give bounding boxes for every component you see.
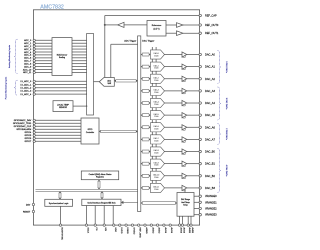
bus DAC7 data [141, 138, 151, 141]
svg-text:DAC_A2: DAC_A2 [205, 77, 215, 81]
svg-text:ADC_2: ADC_2 [24, 45, 32, 48]
svg-text:Synchronization Logic: Synchronization Logic [49, 202, 69, 205]
block multi-sensor input scaling [52, 38, 72, 76]
block serial interface [82, 199, 121, 205]
wire REF_CAP net (top) [105, 16, 200, 25]
pin GPIO3 [33, 128, 35, 130]
pin VRANGE2 [199, 207, 217, 210]
wire junction to buffer A1 [105, 24, 118, 26]
pin AVEE (bottom x=191.0) [190, 224, 194, 234]
wire GPIO6 [35, 137, 81, 139]
wire scaled ADC_10 to mux [72, 69, 87, 71]
op-amp ref buffer A1 (points left) [118, 22, 124, 27]
bus registers to internal bus [98, 180, 101, 190]
svg-text:BUSY/SYNC: BUSY/SYNC [61, 227, 63, 240]
pin DAV (left) [26, 203, 35, 206]
wire DAC6 to buffer [165, 126, 183, 128]
bus sync to internal bus [59, 191, 62, 199]
annotation Power Monitoring Inputs [5, 77, 8, 99]
svg-text:SDO: SDO [114, 227, 116, 232]
block DAC10 12-bit [151, 171, 165, 180]
svg-text:ADC_0: ADC_0 [24, 39, 32, 42]
svg-text:REF_OUT0: REF_OUT0 [205, 23, 219, 27]
pin ADC_9 [33, 65, 35, 67]
annotation brace ADC inputs [14, 39, 17, 73]
label GPIO6 [25, 138, 32, 140]
svg-text:12-Bit: 12-Bit [154, 79, 159, 82]
svg-text:DAC_A7: DAC_A7 [205, 137, 215, 141]
pin VRANGE3 [199, 214, 217, 217]
bus horizontal internal [36, 189, 138, 191]
svg-text:ADC_10: ADC_10 [23, 68, 32, 71]
svg-text:ADC_1: ADC_1 [24, 42, 32, 45]
pin ADC_6 [33, 57, 35, 59]
svg-text:GPIO3/ALARM: GPIO3/ALARM [16, 128, 31, 131]
wire ADC_8 input [35, 63, 52, 65]
svg-text:IOVDD: IOVDD [132, 227, 134, 234]
pin ADC_0 [33, 39, 35, 41]
svg-text:12-Bit: 12-Bit [154, 176, 159, 179]
wire buffer to pin DAC11 [187, 187, 200, 189]
svg-text:Reference: Reference [152, 24, 162, 27]
node junction ref [104, 24, 106, 26]
pin DAC_A5 [199, 113, 215, 117]
wire buffer to pin DAC8 [187, 151, 200, 153]
wire scaled ADC_2 to mux [72, 45, 87, 47]
svg-text:LV_ADC_3: LV_ADC_3 [20, 90, 32, 93]
bus DAC5 data [141, 114, 151, 117]
block DAC4 12-bit [151, 98, 165, 107]
bus DAC6 data [141, 126, 151, 129]
bus DAC8 data [141, 150, 151, 153]
pin ADC_11 [33, 71, 35, 73]
label LV_ADC_3 [20, 90, 32, 93]
wire ADC_0 input [35, 39, 52, 41]
annotation brace DACs group2 [218, 87, 221, 120]
pin DAC_A4 [199, 101, 215, 105]
label GPIO1 [13, 122, 32, 125]
pin AVSS (bottom x=170.2) [169, 224, 173, 234]
svg-text:SENSOR: SENSOR [59, 107, 68, 109]
op-amp DAC3 output buffer [182, 88, 187, 94]
svg-text:12-Bit: 12-Bit [154, 152, 159, 155]
annotation group1 PA gate DACs [225, 61, 228, 73]
wire ADC_3 input [35, 48, 52, 50]
svg-text:ADC_6: ADC_6 [24, 57, 32, 60]
pin DAC_B2 [199, 174, 215, 178]
pin AVEE (bottom x=188.2) [187, 224, 191, 234]
svg-text:SCLK: SCLK [86, 227, 88, 233]
wire scaled ADC_0 to mux [72, 39, 87, 41]
wire CS to pin [94, 206, 96, 226]
wire reference buffer to ADC [104, 25, 106, 78]
pin LV_ADC_4 [33, 93, 35, 95]
svg-text:AVEE: AVEE [188, 227, 191, 233]
pin VRANGE1 [199, 201, 217, 204]
label ADC_8 [24, 62, 32, 65]
wire DAC9 to buffer [165, 163, 183, 165]
wire SDO to pin [112, 206, 114, 226]
wire DAC reference rails [152, 47, 156, 189]
label ADC_9 [24, 65, 32, 68]
annotation Analog Monitoring Inputs [8, 45, 11, 68]
label GPIO2 [14, 125, 32, 128]
node LV mux junction [86, 93, 87, 94]
svg-text:12-Bit: 12-Bit [154, 67, 159, 70]
svg-text:LOCAL TEMP: LOCAL TEMP [57, 103, 70, 106]
svg-text:CS: CS [95, 227, 97, 231]
svg-text:LV_ADC_2: LV_ADC_2 [20, 87, 32, 90]
wire GPIO7 [35, 140, 81, 142]
wire range box supply 1 [181, 216, 183, 225]
wire scaled ADC_8 to mux [72, 63, 87, 65]
svg-text:ADC Trigger: ADC Trigger [124, 40, 136, 43]
label LV_ADC_1 [20, 83, 32, 86]
pin GPIO5 [33, 134, 35, 136]
label ADC_1 [24, 42, 32, 45]
annotation brace LV inputs [14, 80, 17, 95]
label ADC_7 [24, 60, 32, 63]
title AMC7832 [40, 5, 64, 11]
block Reference 2.5V [147, 21, 166, 37]
wire data bus to serial interface [121, 201, 138, 204]
block ADC SAR [99, 78, 114, 87]
wire GPIO1 [35, 122, 81, 124]
pin RESET (left) [23, 210, 35, 213]
op-amp DAC4 output buffer [182, 100, 187, 106]
svg-text:DAC Trigger: DAC Trigger [142, 40, 154, 43]
pin AVDD (bottom x=151.3) [150, 224, 154, 234]
label DAC Trigger [142, 40, 154, 43]
pin AVDD (bottom x=157.6) [156, 224, 160, 234]
block DAC7 12-bit [151, 135, 165, 144]
pin GPIO6 [33, 137, 35, 139]
pin ADC_10 [33, 68, 35, 70]
bus ADC to data bus [114, 79, 137, 82]
svg-text:VRANGE2: VRANGE2 [205, 208, 217, 211]
annotation group2 PA gate DACs [225, 98, 228, 110]
svg-text:Power Monitoring Inputs: Power Monitoring Inputs [5, 77, 8, 99]
wire DAC0 to buffer [165, 54, 183, 56]
svg-text:ADC_3: ADC_3 [24, 48, 32, 51]
svg-text:VRANGE3: VRANGE3 [205, 214, 217, 217]
block DAC9 12-bit [151, 159, 165, 168]
wire DAC2 to buffer [165, 78, 183, 80]
pin REF_GND (bottom x=138.7) [138, 224, 141, 238]
pin REF_OUT1 [199, 31, 219, 35]
bus internal data/trigger bus (vertical) [138, 36, 141, 212]
svg-text:ADC_4: ADC_4 [24, 51, 32, 54]
pin AGND (bottom x=145.0) [144, 224, 148, 234]
wire buffer to REF_OUT0 pin [183, 24, 200, 26]
label GPIO5 [25, 135, 32, 137]
wire DAC11 to buffer [165, 187, 183, 189]
pin REF_CAP [199, 14, 217, 18]
bus DAC9 data [141, 162, 151, 165]
label LV_ADC_0 [20, 80, 32, 83]
wire GPIO0 [35, 119, 81, 121]
wire ADC_2 input [35, 45, 52, 47]
op-amp DAC5 output buffer [182, 113, 187, 119]
svg-text:Controller: Controller [86, 131, 95, 134]
wire ADC_10 input [35, 69, 52, 71]
label ADC_3 [24, 48, 32, 51]
svg-text:12-Bit: 12-Bit [154, 91, 159, 94]
op-amp DAC10 output buffer [182, 173, 187, 179]
bus serial to internal bus [101, 191, 104, 199]
wire ADC_6 input [35, 57, 52, 59]
svg-text:Analog Monitoring Inputs: Analog Monitoring Inputs [8, 45, 11, 68]
svg-text:ADC_9: ADC_9 [24, 65, 32, 68]
pin ADC_4 [33, 51, 35, 53]
svg-text:SDI: SDI [104, 227, 106, 231]
wire buffer to pin DAC10 [187, 175, 200, 177]
pin DAC_B3 [199, 186, 215, 190]
wire ADC_5 input [35, 54, 52, 56]
wire temp sensor to mux [73, 105, 87, 107]
svg-text:AGND: AGND [145, 227, 148, 234]
svg-text:AVSS: AVSS [182, 227, 185, 233]
pin ADC_3 [33, 48, 35, 50]
svg-text:12-Bit: 12-Bit [154, 115, 159, 118]
svg-text:DAC_B3: DAC_B3 [205, 186, 215, 190]
svg-text:12-Bit: 12-Bit [154, 103, 159, 106]
pin DAC_A2 [199, 77, 215, 81]
svg-text:DAC_B1: DAC_B1 [205, 162, 215, 166]
pin DAC_A6 [199, 125, 215, 129]
svg-text:DAC_B2: DAC_B2 [205, 174, 215, 178]
annotation brace DACs group3 [218, 124, 221, 145]
label ADC_6 [24, 57, 32, 60]
svg-text:DAC_A4: DAC_A4 [205, 101, 215, 105]
wire DAC8 to buffer [165, 151, 183, 153]
op-amp DAC7 output buffer [182, 137, 187, 143]
pin GPIO4 [33, 131, 35, 133]
wire scaled ADC_5 to mux [72, 54, 87, 56]
pin SDI (bottom x=104.2) [103, 224, 106, 231]
label ADC_2 [24, 45, 32, 48]
wire DAC10 to buffer [165, 175, 183, 177]
svg-text:12-Bit: 12-Bit [154, 55, 159, 58]
pin ADC_5 [33, 54, 35, 56]
wire mux to ADC SAR [94, 81, 100, 83]
wire GPIO2 [35, 125, 81, 127]
svg-text:DAC Range: DAC Range [181, 198, 190, 201]
svg-text:REF_GND: REF_GND [139, 227, 141, 238]
svg-text:GPIO6: GPIO6 [25, 138, 32, 140]
wire DAC7 to buffer [165, 138, 183, 140]
block DAC11 12-bit [151, 183, 165, 192]
pin DGND (bottom x=126.1) [125, 224, 128, 234]
op-amp DAC6 output buffer [182, 125, 187, 130]
svg-text:REF_OUT1: REF_OUT1 [205, 31, 219, 35]
label ADC_0 [24, 39, 32, 42]
svg-text:GPIO4: GPIO4 [25, 132, 32, 134]
wire buffer to pin DAC2 [187, 78, 200, 80]
IC body outline AMC7832 [33, 10, 199, 225]
wire LV_ADC_3 to mux [35, 90, 87, 92]
wire scaled ADC_11 to mux [72, 71, 87, 73]
pin DAC_A1 [199, 65, 215, 69]
label ADC_4 [24, 51, 32, 54]
bus DAC4 data [141, 102, 151, 105]
svg-text:2 PA3 DACs: 2 PA3 DACs [225, 128, 228, 140]
block synchronization logic [45, 199, 73, 206]
wire buffer to pin DAC9 [187, 163, 200, 165]
pin DAC_B1 [199, 162, 215, 166]
svg-text:GPIO7: GPIO7 [25, 141, 32, 143]
wire GPIO3 [35, 128, 81, 130]
svg-text:12-Bit: 12-Bit [154, 127, 159, 130]
svg-text:DAC_A5: DAC_A5 [205, 113, 215, 117]
pin GPIO0 [33, 119, 35, 121]
bus DAC10 data [141, 174, 151, 177]
svg-text:AVSS: AVSS [180, 227, 183, 233]
wire buffer to pin DAC4 [187, 102, 200, 104]
wire ref out1 [166, 32, 177, 34]
label GPIO0 [14, 119, 32, 122]
bus DAC0 data [141, 53, 151, 56]
pin GPIO7 [33, 140, 35, 142]
block GPIO controller [81, 118, 99, 144]
wire VRANGE3 [194, 214, 200, 216]
svg-text:LV_ADC_1: LV_ADC_1 [20, 83, 32, 86]
bus DAC11 data [141, 186, 151, 189]
block DAC5 12-bit [151, 111, 165, 120]
annotation group3 DACs [225, 128, 228, 140]
svg-text:GPIO5: GPIO5 [25, 135, 32, 137]
wire DAC5 to buffer [165, 114, 183, 116]
pin CS (bottom x=95.2) [94, 224, 97, 231]
svg-text:And Clamp: And Clamp [181, 201, 189, 204]
svg-text:GPIO0/ADC_DAV: GPIO0/ADC_DAV [14, 119, 32, 122]
op-amp DAC9 output buffer [182, 161, 187, 167]
pin LV_ADC_0 [33, 80, 35, 82]
svg-text:Setup: Setup [183, 203, 187, 206]
wire SCLK to pin [85, 206, 87, 226]
svg-text:VRANGE0: VRANGE0 [205, 195, 217, 198]
svg-text:3 PA2 DACs: 3 PA2 DACs [225, 98, 228, 110]
block DAC6 12-bit [151, 123, 165, 132]
wire sync to pin [60, 207, 62, 226]
pin AVSS (bottom x=163.9) [163, 224, 167, 234]
svg-text:3 PA1 DACs: 3 PA1 DACs [225, 61, 228, 73]
op-amp buffer REF_OUT1 [177, 31, 184, 36]
pin ADC_8 [33, 63, 35, 65]
pin SCLK (bottom x=86.4) [85, 224, 88, 234]
pin GPIO1 [33, 122, 35, 124]
label ADC_5 [24, 54, 32, 57]
pin ADC_7 [33, 60, 35, 62]
wire buffer to REF_OUT1 pin [183, 32, 200, 34]
wire buffer to pin DAC5 [187, 114, 200, 116]
pin IOVDD (bottom x=132.4) [131, 224, 134, 235]
svg-text:AVEE: AVEE [191, 227, 194, 233]
svg-text:RESET: RESET [23, 211, 31, 213]
bus DAC1 data [141, 65, 151, 68]
block DAC8 12-bit [151, 147, 165, 156]
svg-text:DAV: DAV [26, 203, 31, 206]
wire SDI to pin [103, 206, 105, 226]
wire buffer to pin DAC1 [187, 66, 200, 68]
svg-text:AVSS: AVSS [164, 227, 167, 233]
wire buffer to pin DAC3 [187, 90, 200, 92]
wire ADC_9 input [35, 66, 52, 68]
op-amp DAC8 output buffer [182, 149, 187, 155]
wire reference box to buffer A1 [124, 24, 147, 26]
wire LV_ADC_4 to mux [35, 93, 87, 95]
op-amp buffer REF_OUT0 [177, 23, 184, 28]
annotation group4 DACs [225, 165, 228, 177]
block local temp sensor [53, 101, 73, 112]
wire DAC3 to buffer [165, 90, 183, 92]
label ADC_11 [23, 71, 32, 74]
wire VRANGE0 [194, 195, 200, 197]
wire ADC trigger [111, 44, 138, 77]
wire DAC1 to buffer [165, 66, 183, 68]
svg-text:12-Bit: 12-Bit [154, 139, 159, 142]
op-amp DAC0 output buffer [182, 52, 187, 58]
pin LV_ADC_2 [33, 87, 35, 89]
svg-text:12-Bit: 12-Bit [154, 188, 159, 191]
wire scaled ADC_1 to mux [72, 42, 87, 44]
annotation brace DACs group4 [218, 149, 221, 193]
wire ADC_11 input [35, 71, 52, 73]
svg-text:AVDD: AVDD [151, 227, 154, 233]
wire DAC4 to buffer [165, 102, 183, 104]
wire scaled ADC_7 to mux [72, 60, 87, 62]
pin LV_ADC_3 [33, 90, 35, 92]
wire scaled ADC_4 to mux [72, 51, 87, 53]
wire LV_ADC_2 to mux [35, 87, 87, 89]
svg-text:ADC_8: ADC_8 [24, 62, 32, 65]
svg-text:Registers: Registers [96, 176, 104, 179]
wire ADC_1 input [35, 42, 52, 44]
wire LV_ADC_1 to mux [35, 84, 87, 86]
svg-text:AVDD: AVDD [158, 227, 161, 233]
wire GPIO5 [35, 134, 81, 136]
block DAC range and clamp setup [177, 193, 194, 217]
pin ADC_1 [33, 42, 35, 44]
node temp mux junction [86, 105, 87, 106]
wire ADC_4 input [35, 51, 52, 53]
pin VRANGE0 [199, 195, 217, 198]
svg-text:ADC_11: ADC_11 [23, 71, 32, 74]
svg-text:LV_ADC_0: LV_ADC_0 [20, 80, 32, 83]
op-amp DAC11 output buffer [182, 185, 187, 191]
svg-text:Multi-Sensor: Multi-Sensor [57, 53, 68, 56]
pin AVSS (bottom x=182.4) [181, 224, 185, 234]
pin ADC_2 [33, 45, 35, 47]
wire range box supply 3 [190, 216, 192, 225]
block DAC0 12-bit [151, 50, 165, 59]
wire scaled ADC_9 to mux [72, 66, 87, 68]
svg-text:GPIO2/DAC_CLR: GPIO2/DAC_CLR [14, 125, 32, 128]
block DAC3 12-bit [151, 86, 165, 95]
pin DAC_A7 [199, 137, 215, 141]
bus DAC3 data [141, 89, 151, 92]
pin LV_ADC_1 [33, 83, 35, 85]
wire range box top stub [184, 189, 186, 192]
pin BUSY/SYNC (bottom x=60.5) [59, 224, 62, 241]
svg-text:AVSS: AVSS [170, 227, 173, 233]
pin GPIO2 [33, 125, 35, 127]
svg-text:DAC_A0: DAC_A0 [205, 53, 215, 57]
svg-text:4 PA4 DACs: 4 PA4 DACs [225, 165, 228, 177]
block analog mux [87, 34, 94, 116]
wire buffer to pin DAC7 [187, 138, 200, 140]
svg-text:GPIO1/ADC_TRIG: GPIO1/ADC_TRIG [13, 122, 32, 125]
